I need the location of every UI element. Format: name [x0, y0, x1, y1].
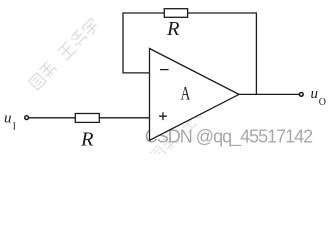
resistor R (feedback) — [164, 9, 187, 18]
svg-text:u: u — [4, 111, 12, 127]
op-amp A — [150, 49, 240, 141]
terminal u_O — [299, 93, 303, 97]
wire: inverting input to feedback resistor R — [123, 13, 164, 73]
terminal u_I — [25, 116, 29, 120]
wire: input terminal to resistor R — [29, 117, 75, 119]
wire: op-amp output to terminal — [239, 93, 299, 95]
svg-text:I: I — [13, 122, 16, 133]
op-amp non-inverting input marker (plus) — [159, 112, 167, 120]
wire: feedback resistor to output node — [188, 13, 257, 94]
svg-text:R: R — [166, 18, 180, 40]
resistor R (input) — [75, 114, 99, 123]
svg-text:u: u — [311, 86, 319, 102]
svg-text:A: A — [181, 84, 191, 105]
svg-text:O: O — [319, 97, 326, 108]
svg-text:R: R — [80, 129, 94, 151]
wire: input resistor to non-inverting input — [99, 117, 149, 119]
op-amp inverting input marker (minus) — [160, 69, 169, 71]
